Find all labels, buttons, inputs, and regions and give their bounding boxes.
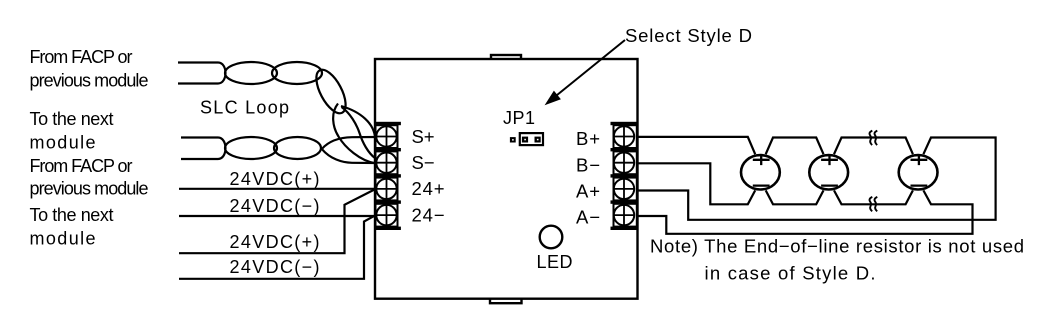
svg-text:To the next: To the next xyxy=(30,205,114,225)
svg-text:24+: 24+ xyxy=(412,178,445,199)
svg-text:JP1: JP1 xyxy=(503,108,535,128)
svg-text:Select Style D: Select Style D xyxy=(625,25,752,46)
svg-text:B+: B+ xyxy=(576,128,600,149)
svg-text:in case of Style D.: in case of Style D. xyxy=(705,262,876,283)
svg-text:24VDC(−): 24VDC(−) xyxy=(230,257,320,277)
svg-text:module: module xyxy=(30,229,96,249)
svg-text:To the next: To the next xyxy=(30,109,114,129)
svg-text:LED: LED xyxy=(537,252,573,272)
svg-text:B−: B− xyxy=(576,154,600,175)
svg-text:previous module: previous module xyxy=(30,179,149,199)
svg-text:From FACP or: From FACP or xyxy=(30,156,133,176)
svg-text:24−: 24− xyxy=(412,204,445,225)
svg-text:Note) The End−of−line resistor: Note) The End−of−line resistor is not us… xyxy=(650,236,1024,257)
svg-text:From FACP or: From FACP or xyxy=(30,47,133,67)
svg-text:S−: S− xyxy=(412,152,435,173)
svg-text:S+: S+ xyxy=(412,126,435,147)
svg-text:24VDC(+): 24VDC(+) xyxy=(230,169,320,189)
svg-text:A−: A− xyxy=(576,207,600,228)
svg-text:previous module: previous module xyxy=(30,71,149,91)
svg-text:24VDC(−): 24VDC(−) xyxy=(230,196,320,216)
svg-text:module: module xyxy=(30,132,96,152)
svg-text:A+: A+ xyxy=(576,181,600,202)
svg-text:SLC Loop: SLC Loop xyxy=(200,97,289,117)
svg-text:24VDC(+): 24VDC(+) xyxy=(230,232,320,252)
